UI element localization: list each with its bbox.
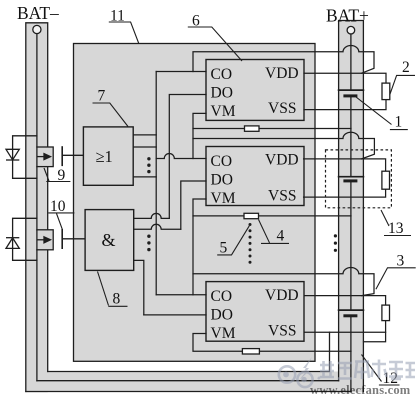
svg-text:DO: DO xyxy=(211,85,233,102)
wire: link VM1 node down to W2 and CO2 xyxy=(192,129,194,159)
svg-text:&: & xyxy=(102,230,116,250)
resistor R4c (VM3 sense) xyxy=(242,349,259,354)
wire: CO1 to CO bus xyxy=(156,71,206,73)
BAT+ terminal circle xyxy=(347,26,355,34)
wire: W2 cascade link with hop over battery xyxy=(193,132,374,159)
wire: link VM2 node down to W3 and CO3 xyxy=(192,216,194,295)
svg-text:5: 5 xyxy=(220,239,228,256)
label 8 leader xyxy=(98,272,128,307)
resistor R4 (VM1 sense) xyxy=(245,126,260,131)
label 4 leader xyxy=(259,220,290,244)
svg-text:2: 2 xyxy=(402,59,410,76)
svg-text:3: 3 xyxy=(397,253,405,270)
transistor Q1 body rectangle xyxy=(37,147,53,167)
diode D1 symbol xyxy=(6,149,19,160)
wire: CO3 from CO bus xyxy=(156,294,206,296)
label 2 leader xyxy=(390,75,415,94)
resistor R3 xyxy=(382,305,390,321)
ellipsis dots beside AND gate xyxy=(147,235,150,252)
BAT- bar right line lower segment xyxy=(47,167,49,372)
diode D2 symbol xyxy=(6,238,19,249)
svg-text:≥1: ≥1 xyxy=(96,147,113,166)
svg-text:VSS: VSS xyxy=(268,188,296,205)
wire: DO2 down xyxy=(181,181,206,229)
wire: OR input 3 xyxy=(133,176,156,178)
watermark hanzi strokes (stylized) xyxy=(318,360,415,380)
wire: AND input 2 with hop over CO bus xyxy=(134,224,181,229)
wire: OR input 2 xyxy=(133,146,156,148)
svg-text:BAT–: BAT– xyxy=(17,3,59,23)
label 3 leader xyxy=(376,268,416,290)
wire: CO2 with hop over DO1 line xyxy=(156,154,206,159)
bottom return-bus band fill xyxy=(26,372,344,392)
wire: FET chain node down to bottom tap xyxy=(36,167,38,381)
wire: AND input 3 to DO3 xyxy=(134,260,144,315)
wire: OR input 1 xyxy=(133,134,156,136)
transistor Q2 gate electrode xyxy=(61,230,63,248)
label 10 leader xyxy=(48,213,74,229)
wire: VSS2 to R13 bottom xyxy=(304,189,386,197)
svg-text:10: 10 xyxy=(50,198,66,215)
wire: W1 cascade link with hop over battery xyxy=(193,45,374,73)
wire: VDD1 to R2 xyxy=(304,73,386,83)
dashed box 13 around cell-2 balancing group xyxy=(326,150,392,208)
svg-text:11: 11 xyxy=(110,7,125,24)
label 12 leader xyxy=(362,355,400,386)
svg-text:7: 7 xyxy=(98,88,106,105)
protection IC U3 box xyxy=(206,282,304,342)
BAT+ stack outline left line xyxy=(339,21,364,392)
transistor Q2 body rectangle xyxy=(37,230,53,250)
wire: DO3 xyxy=(144,314,206,316)
svg-text:CO: CO xyxy=(211,288,233,305)
label 5 leader xyxy=(217,226,249,255)
watermark lightning bolt xyxy=(299,357,312,380)
diode D2 parallel loop xyxy=(13,218,37,260)
svg-text:VM: VM xyxy=(211,325,236,342)
repetition dots column (label 5 target) xyxy=(249,223,252,264)
label 7 leader xyxy=(93,103,129,127)
label 6 leader xyxy=(188,27,242,61)
svg-text:VSS: VSS xyxy=(268,100,296,117)
svg-text:BAT+: BAT+ xyxy=(326,6,369,26)
wire: bottom return line (upper, P- path) xyxy=(48,332,330,371)
transistor Q1 arrow xyxy=(37,154,51,160)
wire: DO1 down xyxy=(169,95,206,219)
wire: VSS1 to R2 bottom xyxy=(304,100,386,110)
wire: Q2 gate to AND-gate output xyxy=(62,238,85,240)
label 9 leader xyxy=(44,168,70,182)
svg-text:6: 6 xyxy=(192,12,200,29)
transistor Q2 arrow xyxy=(37,237,51,243)
wire: W3 cascade link with hop over battery xyxy=(193,267,374,295)
wire: VM3 via sense resistor to tap3 xyxy=(193,334,351,352)
BAT+ inner conductor xyxy=(346,34,351,392)
wire: bottom return line (outermost) xyxy=(26,391,351,393)
svg-text:CO: CO xyxy=(211,153,233,170)
cell 2 plates xyxy=(339,176,364,178)
op-amp/OR gate U7 box xyxy=(83,127,133,185)
BAT+ battery stack bar fill xyxy=(339,21,364,393)
wire: VM1 via sense resistor to tap1 xyxy=(193,113,351,128)
svg-text:VM: VM xyxy=(211,103,236,120)
wire: VSS3 xyxy=(305,331,386,333)
svg-text:VDD: VDD xyxy=(265,152,299,169)
svg-text:www.elecfans.com: www.elecfans.com xyxy=(310,383,411,397)
wire: R3 bottom to pack negative rail xyxy=(364,321,386,342)
wire: Q1 gate to OR-gate output xyxy=(62,154,83,156)
cell 1 plates xyxy=(339,89,364,91)
resistor R13 (inside dashed box) xyxy=(382,171,390,189)
resistor R4b (VM2 sense) xyxy=(244,213,259,218)
svg-text:CO: CO xyxy=(211,66,233,83)
wire: VM2 via sense resistor to tap2 xyxy=(193,199,351,216)
cell 3 plates xyxy=(339,309,364,311)
BAT- bus bar fill xyxy=(26,23,48,393)
ellipsis dots beside battery stack xyxy=(334,234,337,252)
ellipsis dots beside OR gate xyxy=(147,157,150,173)
wire: VDD3 to R3 xyxy=(305,296,386,306)
transistor Q1 gate electrode xyxy=(61,147,63,165)
diode D1 parallel loop xyxy=(13,136,37,179)
svg-text:DO: DO xyxy=(211,307,233,324)
svg-text:1: 1 xyxy=(395,113,403,130)
wire: VDD2 to R13 xyxy=(304,159,386,171)
protection IC U2 box xyxy=(206,147,304,206)
BAT- terminal circle xyxy=(33,25,41,33)
label 13 leader xyxy=(381,210,411,236)
svg-text:9: 9 xyxy=(58,167,66,184)
label 11 leader xyxy=(109,22,139,44)
svg-text:VM: VM xyxy=(211,190,236,207)
module block 11 fill xyxy=(74,44,316,362)
svg-text:VSS: VSS xyxy=(268,323,296,340)
svg-text:8: 8 xyxy=(113,291,121,308)
svg-text:4: 4 xyxy=(277,228,285,245)
wire: CO bus vertical xyxy=(155,72,157,295)
BAT- inner conductor wire xyxy=(36,34,38,147)
BAT- terminal bar outline xyxy=(26,23,48,392)
label 1 leader xyxy=(356,97,408,130)
wire: AND input 1 with hop over CO bus xyxy=(134,213,170,218)
module block 11 outline xyxy=(74,44,316,362)
svg-text:VDD: VDD xyxy=(265,287,299,304)
svg-text:13: 13 xyxy=(388,220,404,237)
svg-text:VDD: VDD xyxy=(265,65,299,82)
AND gate U8 box xyxy=(85,210,134,271)
watermark logo rings xyxy=(279,366,313,387)
protection IC U1 box xyxy=(206,60,304,121)
wire: bottom return line (inner) xyxy=(37,380,339,382)
resistor R2 xyxy=(382,83,390,100)
svg-text:DO: DO xyxy=(211,172,233,189)
